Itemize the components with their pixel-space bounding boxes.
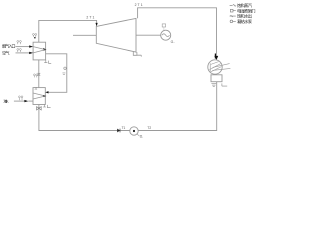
svg-text:饱和水出: 饱和水出 [237,13,252,19]
svg-text:T1: T1 [122,126,126,130]
svg-text:海水: 海水 [3,99,9,104]
svg-text:凝结水泵: 凝结水泵 [237,18,252,24]
svg-text:G..: G.. [171,40,176,44]
svg-text:T2: T2 [147,126,151,130]
svg-text:烟气入口: 烟气入口 [2,42,16,49]
svg-text:Ω.: Ω. [140,135,144,139]
svg-text:空气: 空气 [2,49,10,55]
svg-text:2T1: 2T1 [135,3,143,7]
svg-text:电动调节阀门: 电动调节阀门 [237,7,256,13]
svg-text:11: 11 [34,87,37,91]
svg-text:饱和蒸汽: 饱和蒸汽 [237,2,252,8]
svg-text:2T1: 2T1 [86,16,94,20]
